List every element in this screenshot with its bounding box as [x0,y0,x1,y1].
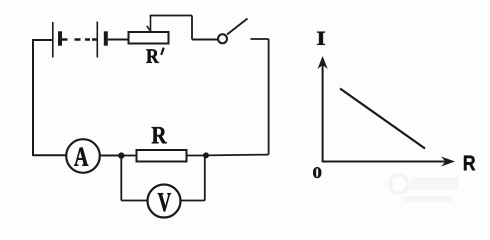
node left junction [118,152,124,158]
switch S pivot [218,34,227,43]
resistor R body [137,150,187,162]
wire voltmeter left vertical [120,156,122,201]
wire voltmeter left horizontal [121,200,147,202]
battery cell 2 short plate [104,31,108,45]
wire voltmeter right horizontal [181,200,205,202]
rheostat wiper arrow [147,16,151,32]
wire node to resistor [121,155,136,157]
wire ammeter to node [100,155,120,157]
wire battery stub [62,38,68,40]
wire voltmeter right vertical [204,156,206,201]
label A [74,148,88,166]
wire battery to rheostat [108,39,128,41]
node right junction [203,152,209,158]
wire wiper down [191,16,193,40]
voltmeter V [148,185,181,218]
label V [158,193,171,211]
watermark [390,175,459,202]
switch S blade [227,19,248,35]
wire switch right contact [251,38,269,40]
battery cell 1 short plate [58,31,62,45]
label R prime tick [161,48,165,56]
label 0 [313,167,321,178]
wire to switch [192,39,218,41]
label R [152,127,167,143]
label R (x-axis) [464,156,475,171]
wire wiper horizontal [150,15,192,17]
label I (y-axis) [317,32,325,45]
I axis [318,56,328,162]
wire right vertical [268,39,270,155]
battery cell 1 long plate [52,22,54,58]
wire left vertical [32,39,34,156]
wire bottom left horizontal [33,154,66,156]
ammeter A [66,139,100,173]
I-R curve [340,89,425,149]
label R' [146,49,159,62]
R axis [322,157,455,167]
wire dashed cells omitted [75,38,97,40]
wire bottom right horizontal [206,154,269,157]
wire resistor to node [187,155,206,157]
rheostat R' body [129,32,169,44]
battery cell 2 long plate [96,22,98,58]
wire left-top horizontal [33,39,52,41]
